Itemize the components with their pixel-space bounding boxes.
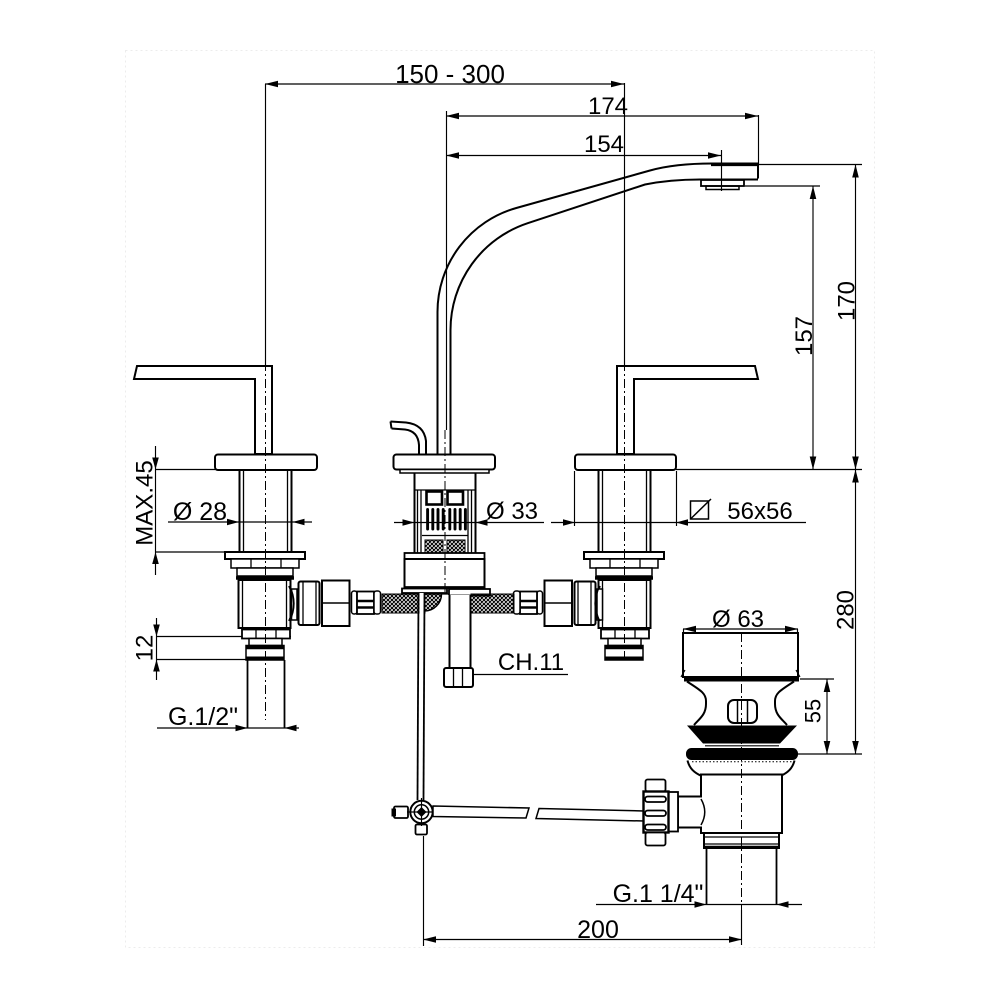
svg-text:Ø 63: Ø 63: [712, 606, 764, 633]
svg-text:Ø 33: Ø 33: [486, 498, 538, 525]
svg-text:154: 154: [584, 131, 624, 158]
svg-text:12: 12: [132, 635, 159, 662]
svg-text:280: 280: [833, 590, 860, 630]
svg-text:56x56: 56x56: [727, 498, 792, 525]
svg-text:Ø 28: Ø 28: [173, 498, 227, 526]
svg-text:G.1 1/4": G.1 1/4": [613, 880, 704, 908]
svg-text:174: 174: [588, 93, 628, 120]
svg-text:CH.11: CH.11: [498, 649, 564, 676]
svg-text:G.1/2": G.1/2": [168, 703, 238, 731]
svg-text:200: 200: [577, 916, 619, 944]
svg-text:170: 170: [834, 281, 861, 321]
svg-text:MAX.45: MAX.45: [132, 460, 159, 545]
svg-text:157: 157: [791, 316, 818, 356]
svg-text:150 - 300: 150 - 300: [395, 59, 505, 89]
svg-text:55: 55: [801, 699, 826, 723]
